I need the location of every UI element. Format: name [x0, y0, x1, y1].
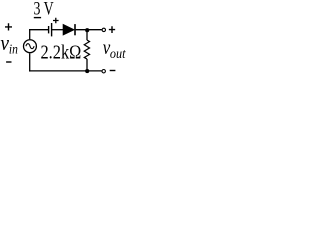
- plus sign of battery: [53, 18, 59, 24]
- wire top rail battery-to-diode segment: [52, 29, 64, 31]
- diode D1 triangle: [63, 24, 74, 35]
- svg-text:out: out: [110, 46, 127, 61]
- junction dot top node: [85, 28, 89, 32]
- battery 3V long (positive) plate: [51, 23, 53, 36]
- minus sign of vout: [110, 70, 116, 72]
- output terminal bottom (open circle): [102, 70, 105, 73]
- wire bottom rail: [29, 70, 102, 72]
- wire top rail diode-to-terminal segment: [76, 29, 102, 31]
- wire top-left vertical (source to top rail): [29, 29, 31, 39]
- svg-text:in: in: [9, 41, 18, 56]
- battery 3V short (negative) plate: [48, 26, 50, 33]
- wire resistor bottom lead: [86, 59, 88, 71]
- plus sign of vin source: [5, 23, 12, 30]
- diode D1 cathode bar: [74, 24, 76, 35]
- plus sign of vout: [109, 26, 115, 33]
- minus sign of vin source: [6, 61, 11, 63]
- svg-text:2.2kΩ: 2.2kΩ: [41, 41, 82, 63]
- output terminal top (open circle): [102, 28, 105, 31]
- wire top rail left segment: [29, 29, 48, 31]
- svg-text:v: v: [0, 30, 9, 55]
- svg-text:3 V: 3 V: [34, 0, 54, 20]
- wire left vertical below source: [29, 53, 31, 71]
- minus sign of battery: [34, 17, 41, 19]
- junction dot bottom node: [85, 69, 89, 73]
- resistor 2.2k zigzag: [84, 40, 89, 59]
- wire resistor top lead: [86, 30, 88, 40]
- voltage source vin (AC): [24, 40, 37, 53]
- sine wave inside source: [26, 44, 34, 49]
